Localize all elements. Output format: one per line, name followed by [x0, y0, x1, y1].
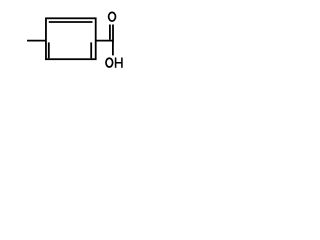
carbonyl oxygen label O	[109, 12, 116, 21]
ring right inner double-bond line	[90, 42, 92, 58]
hydroxyl label O	[106, 58, 113, 67]
benzene ring outer rectangle	[46, 18, 96, 59]
C=O second line	[109, 25, 111, 40]
ring top inner double-bond line	[49, 21, 93, 23]
background	[0, 0, 156, 82]
ring left inner double-bond line	[48, 42, 50, 58]
bond ring to carboxyl carbon	[96, 40, 113, 42]
methyl bond	[27, 40, 46, 42]
hydroxyl label H	[116, 58, 122, 68]
C=O main line	[112, 25, 114, 42]
C-OH bond	[112, 40, 114, 56]
